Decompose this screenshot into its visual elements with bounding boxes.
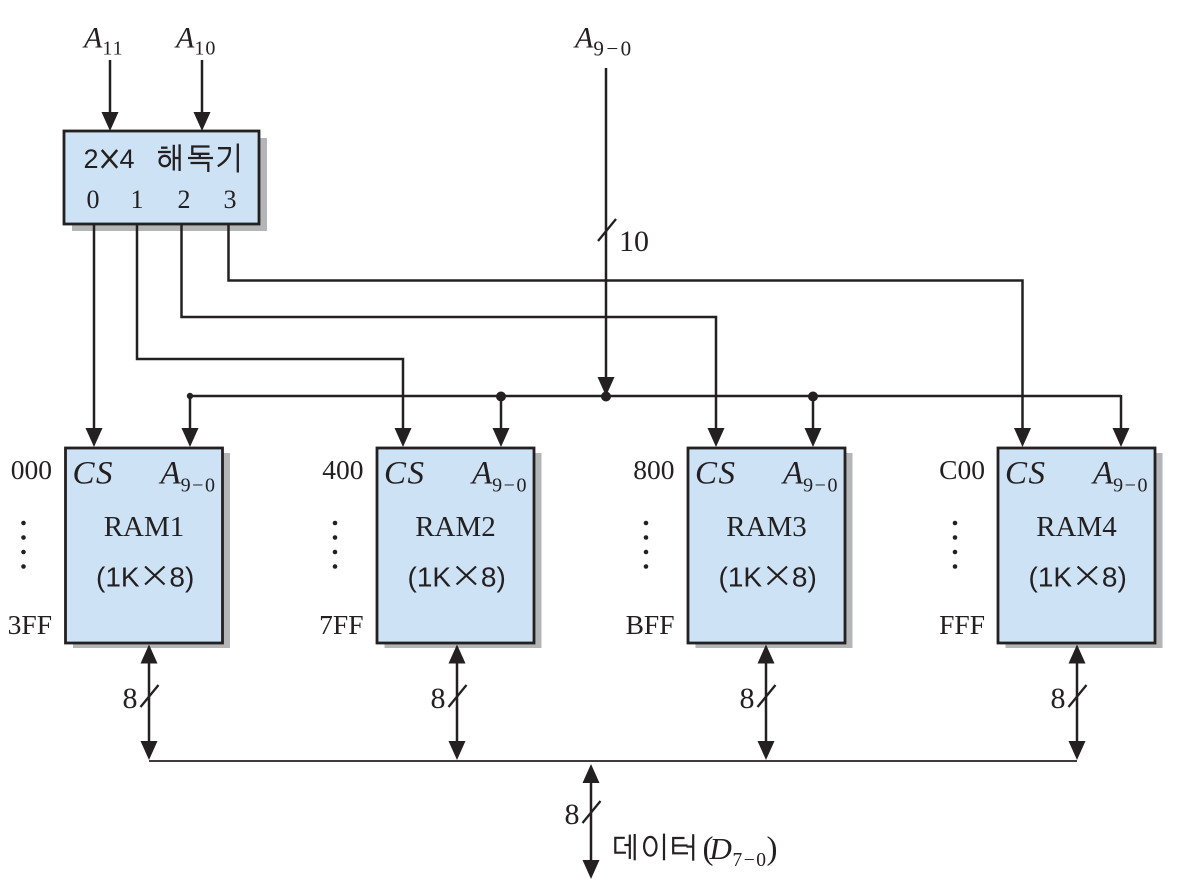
svg-text:A9−0: A9−0	[573, 22, 634, 61]
svg-text:D: D	[709, 831, 732, 866]
node junction dot RAM3	[808, 392, 818, 402]
RAM4 vertical dots	[953, 521, 958, 569]
svg-text:A10: A10	[174, 22, 216, 60]
wire bus to RAM3 A9-0	[812, 396, 815, 429]
svg-text:1: 1	[131, 185, 144, 214]
svg-text:800: 800	[633, 454, 674, 485]
label: data (Korean deiteo)	[615, 834, 693, 861]
svg-text:8: 8	[431, 682, 446, 715]
svg-text:0: 0	[87, 185, 100, 214]
wire bus to RAM1 A9-0	[189, 396, 192, 429]
RAM4 shadow	[1006, 453, 1163, 648]
RAM1 shadow	[73, 453, 230, 648]
svg-text:(1K: (1K	[408, 562, 452, 593]
svg-text:8): 8)	[481, 562, 506, 593]
svg-text:CS: CS	[695, 456, 737, 492]
wire RAM2 data (double arrow)	[456, 660, 459, 745]
bus slash data	[583, 801, 601, 823]
svg-text:8): 8)	[792, 562, 817, 593]
RAM1 vertical dots	[21, 521, 26, 569]
RAM2 vertical dots	[333, 521, 338, 569]
wire RAM4 data (double arrow)	[1076, 660, 1079, 745]
svg-text:2: 2	[84, 144, 99, 174]
bus slash RAM3	[758, 685, 776, 707]
svg-text:8: 8	[565, 798, 580, 831]
decoder U1 box 2x4	[64, 131, 259, 224]
wire decoder out0 to RAM1 CS	[93, 224, 96, 429]
svg-text:7−0: 7−0	[733, 850, 768, 871]
RAM4 box	[998, 448, 1155, 643]
svg-text:2: 2	[178, 185, 191, 214]
node: bus left end dot	[187, 393, 193, 399]
svg-text:400: 400	[322, 454, 363, 485]
wire external data (double arrow)	[590, 780, 593, 862]
decoder U1 shadow	[72, 138, 267, 231]
wire RAM3 data (double arrow)	[765, 660, 768, 745]
svg-text:3FF: 3FF	[8, 609, 52, 640]
svg-text:RAM2: RAM2	[415, 511, 496, 543]
svg-text:000: 000	[11, 454, 52, 485]
RAM3 shadow	[696, 453, 853, 648]
bus slash RAM1	[141, 685, 159, 707]
svg-text:8): 8)	[1102, 562, 1127, 593]
wire A9-0 horizontal bus	[190, 395, 1121, 398]
node junction dot A9-0	[601, 392, 611, 402]
RAM2 shadow	[385, 453, 542, 648]
RAM3 vertical dots	[644, 521, 649, 569]
svg-text:): )	[767, 831, 778, 867]
svg-text:FFF: FFF	[939, 609, 985, 640]
RAM3 box	[688, 448, 845, 643]
svg-text:4: 4	[120, 144, 135, 174]
svg-text:7FF: 7FF	[319, 609, 363, 640]
svg-text:8: 8	[740, 682, 755, 715]
wire A9-0 vertical	[605, 68, 608, 378]
svg-text:(1K: (1K	[1029, 562, 1073, 593]
wire data bus horizontal	[149, 760, 1077, 762]
svg-text:8): 8)	[169, 562, 194, 593]
svg-text:CS: CS	[1005, 456, 1047, 492]
decoder label haedokgi (Korean)	[158, 144, 238, 173]
bus slash RAM4	[1069, 685, 1087, 707]
svg-text:(1K: (1K	[719, 562, 763, 593]
bus slash RAM2	[449, 685, 467, 707]
wire bus to RAM4 A9-0	[1120, 395, 1123, 429]
wire A11 into decoder	[109, 60, 112, 113]
RAM2 box	[377, 448, 534, 643]
wire decoder out2 to RAM3 CS	[182, 224, 717, 429]
svg-text:(1K: (1K	[96, 562, 140, 593]
wire decoder out3 to RAM4 CS	[229, 224, 1023, 429]
wire A10 into decoder	[201, 60, 204, 113]
wire RAM1 data (double arrow)	[148, 660, 151, 745]
RAM1 box	[66, 448, 223, 643]
svg-text:C00: C00	[939, 454, 985, 485]
svg-text:RAM1: RAM1	[104, 511, 185, 543]
svg-text:CS: CS	[73, 456, 115, 492]
svg-text:8: 8	[123, 682, 138, 715]
bus slash 10	[598, 219, 616, 241]
svg-text:3: 3	[224, 185, 237, 214]
svg-text:10: 10	[619, 225, 649, 258]
wire bus to RAM2 A9-0	[500, 396, 503, 429]
svg-text:RAM3: RAM3	[726, 511, 807, 543]
svg-text:RAM4: RAM4	[1036, 511, 1117, 543]
wire decoder out1 to RAM2 CS	[137, 224, 403, 429]
svg-text:A11: A11	[82, 22, 124, 60]
svg-text:BFF: BFF	[626, 609, 675, 640]
node junction dot RAM2	[496, 392, 506, 402]
svg-text:8: 8	[1051, 682, 1066, 715]
svg-text:CS: CS	[384, 456, 426, 492]
